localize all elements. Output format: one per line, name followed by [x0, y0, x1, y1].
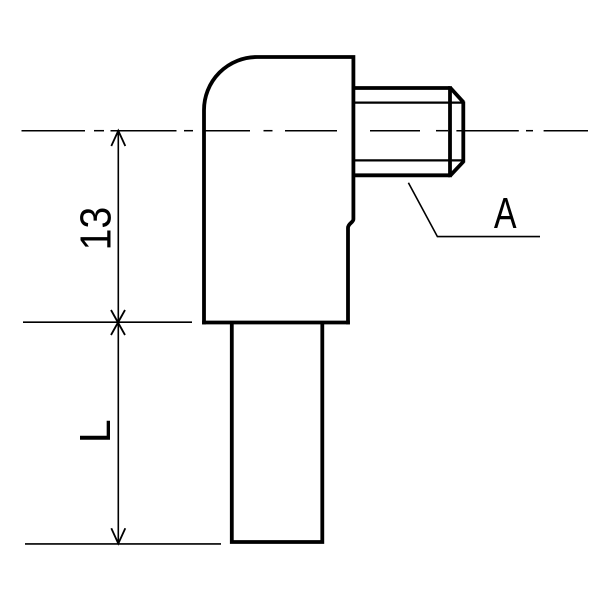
crossed arrowheads at y=321 (diagonal 1): [111, 310, 125, 335]
dimension text L (rotated): [80, 421, 110, 440]
label A: [494, 198, 517, 228]
centerline (horizontal dash-dot axis): [22, 130, 589, 132]
threaded stud: outer bottom line: [353, 173, 450, 177]
arrowhead down at shaft bottom: [111, 528, 125, 543]
shaft (lower tube): [232, 322, 322, 542]
threaded stud: end face vertical: [461, 102, 465, 163]
dimension line (vertical through both dimensions): [117, 131, 119, 544]
threaded stud: thread root top line: [353, 101, 461, 103]
dimension text 13 (rotated): [80, 208, 111, 247]
body outline (elbow block with rounded top-left corner and stepped right edge): [204, 57, 353, 324]
extension line at body bottom (dimension 13 lower reference): [23, 321, 192, 323]
arrowhead up at centerline: [111, 131, 125, 146]
threaded stud: bottom chamfer diagonal: [451, 162, 464, 176]
threaded stud: top chamfer diagonal: [451, 88, 464, 102]
threaded stud: thread end vertical: [448, 86, 452, 177]
body bottom edge: [202, 321, 350, 325]
leader line to A: [408, 183, 540, 237]
crossed arrowheads at y=321 (diagonal 2): [111, 310, 125, 335]
threaded stud: outer top line: [353, 86, 450, 90]
threaded stud: thread root bottom line: [353, 159, 461, 161]
extension line at shaft bottom (dimension L lower reference): [25, 543, 221, 545]
